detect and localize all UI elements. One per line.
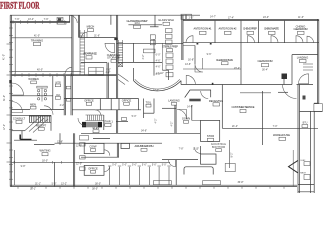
mech east wall	[116, 15, 118, 98]
dark column box	[282, 74, 288, 80]
svg-text:17'-2": 17'-2"	[3, 124, 6, 130]
left wall window ticks	[9, 28, 13, 179]
svg-text:BTU: BTU	[303, 122, 308, 125]
big left arrow	[289, 160, 299, 173]
dark tick on left wall	[9, 80, 11, 83]
svg-text:13'-4": 13'-4"	[28, 18, 34, 21]
left exterior wall	[9, 15, 11, 186]
svg-text:RECEPT: RECEPT	[36, 123, 47, 127]
office room lower	[84, 165, 104, 175]
svg-text:14'-7": 14'-7"	[210, 15, 216, 18]
door arc left of stair	[78, 118, 86, 126]
conf room upper	[84, 143, 104, 153]
svg-text:38'-0": 38'-0"	[95, 182, 101, 185]
svg-text:31'-0": 31'-0"	[3, 95, 6, 101]
men door arc	[44, 106, 53, 115]
svg-text:7'-8": 7'-8"	[179, 148, 184, 151]
svg-text:40'-0": 40'-0"	[37, 69, 43, 72]
svg-text:23'-4": 23'-4"	[234, 67, 240, 70]
exterior top outer line	[10, 14, 200, 16]
stair east wall	[103, 115, 105, 130]
svg-text:11'-6": 11'-6"	[298, 16, 304, 19]
door to warehouse	[283, 85, 297, 99]
svg-text:CONSULT: CONSULT	[13, 116, 26, 120]
wall ante1/ante2	[214, 21, 216, 43]
svg-text:ANTE ROOM #2: ANTE ROOM #2	[219, 27, 238, 31]
receiving desk	[185, 90, 211, 98]
corridor south line	[81, 132, 200, 134]
svg-text:4'-2": 4'-2"	[171, 121, 174, 126]
warehouse north wall stub	[278, 91, 288, 93]
svg-text:18'-0": 18'-0"	[42, 159, 48, 162]
small L wall center	[162, 69, 168, 71]
training SE door arc	[65, 67, 72, 74]
training south partition (hatched)	[12, 71, 82, 73]
right side step tab	[314, 102, 319, 104]
svg-text:CONF: CONF	[89, 145, 97, 149]
svg-text:ELEV: ELEV	[93, 126, 100, 130]
svg-text:CLEAN ROOM: CLEAN ROOM	[294, 27, 308, 31]
service boxes right of restrooms	[55, 84, 60, 87]
svg-text:CHEMO WASTE: CHEMO WASTE	[264, 27, 279, 31]
svg-text:BOOTH RM: BOOTH RM	[212, 146, 225, 149]
consult row wall	[12, 114, 52, 116]
svg-text:CLEAN ROOM #1: CLEAN ROOM #1	[216, 58, 234, 62]
svg-text:WOMEN: WOMEN	[28, 77, 38, 81]
svg-text:4'-2": 4'-2"	[60, 104, 65, 107]
right exterior wall upper	[317, 19, 319, 103]
svg-text:14'-6": 14'-6"	[185, 63, 191, 66]
svg-text:TRAINING: TRAINING	[31, 38, 43, 42]
svg-text:ELEC: ELEC	[301, 160, 306, 162]
svg-text:9'-6": 9'-6"	[207, 53, 212, 56]
svg-text:4'-6": 4'-6"	[156, 66, 161, 69]
svg-text:14'-6": 14'-6"	[187, 105, 193, 108]
svg-text:LANDING: LANDING	[297, 55, 309, 59]
svg-text:9'-8": 9'-8"	[21, 165, 26, 168]
svg-text:MEN: MEN	[30, 102, 36, 106]
sterile prep east wall	[194, 46, 196, 65]
svg-text:STAIR 1: STAIR 1	[103, 119, 113, 123]
audiology suite	[162, 159, 198, 161]
svg-text:4'-6": 4'-6"	[156, 60, 161, 63]
svg-text:36'-8": 36'-8"	[237, 181, 243, 184]
svg-text:STORAGE: STORAGE	[107, 56, 120, 60]
LANDING room	[292, 54, 318, 56]
svg-text:12'-2": 12'-2"	[153, 89, 159, 92]
top window wall of training room	[10, 20, 70, 22]
equip dark box	[303, 96, 306, 100]
svg-text:1034: 1034	[134, 22, 140, 25]
right block south wall	[183, 42, 319, 44]
small rects at bottom wall	[153, 181, 171, 185]
glasswash east wall	[153, 39, 155, 76]
MECH room	[77, 15, 79, 37]
gown ladder strip	[118, 40, 122, 62]
svg-text:5'-0": 5'-0"	[112, 163, 117, 166]
door arc into receiving	[177, 110, 187, 120]
counter	[184, 167, 213, 175]
svg-text:12'-0": 12'-0"	[76, 145, 82, 148]
svg-text:38'-0": 38'-0"	[92, 188, 98, 191]
svg-text:5'-0": 5'-0"	[162, 163, 167, 166]
svg-text:OFFICE: OFFICE	[84, 98, 94, 102]
fixtures	[37, 86, 47, 101]
svg-text:GLASS WSH: GLASS WSH	[158, 18, 174, 22]
svg-text:ACOUSTICAL BOOTH: ACOUSTICAL BOOTH	[135, 144, 154, 148]
svg-text:CLEAN ROOM: CLEAN ROOM	[258, 59, 273, 63]
wall ante2/prep	[240, 21, 242, 43]
svg-text:4'-2": 4'-2"	[155, 118, 158, 123]
CUSTOMER SERVICE room	[221, 85, 223, 129]
dim line across clean room 1	[183, 68, 241, 70]
shaft boxes at top step	[181, 14, 186, 19]
door up from corridor	[185, 75, 187, 84]
svg-text:5'-0": 5'-0"	[142, 163, 147, 166]
wall prep/waste	[258, 21, 260, 43]
svg-text:41'-0": 41'-0"	[34, 35, 40, 38]
small stair treads	[30, 116, 50, 122]
svg-text:7'-9": 7'-9"	[44, 18, 49, 21]
GLASS WSH room	[154, 15, 156, 27]
sound room west wall	[104, 150, 110, 156]
restroom door arcs	[12, 83, 24, 95]
desk rects	[80, 136, 89, 141]
svg-text:17'-10": 17'-10"	[156, 72, 164, 75]
svg-text:1'-10": 1'-10"	[193, 148, 199, 151]
ramp diagonals	[25, 117, 48, 133]
svg-text:31'-1": 31'-1"	[35, 183, 41, 186]
legend table	[89, 68, 104, 76]
office partition stubs	[110, 167, 169, 185]
STOR room	[201, 120, 220, 141]
restrooms below training	[52, 76, 54, 110]
bottom exterior wall	[10, 184, 297, 186]
corridor west walls	[63, 76, 65, 116]
bottom-left rooms row	[55, 142, 163, 144]
curved corridor wall	[134, 81, 182, 91]
upper flight ladder	[86, 115, 104, 121]
svg-text:8'-2": 8'-2"	[230, 152, 233, 157]
pallet box	[225, 163, 235, 171]
entry nook	[21, 131, 23, 140]
svg-text:24'-0": 24'-0"	[263, 16, 269, 19]
svg-text:13'-2": 13'-2"	[61, 183, 67, 186]
svg-text:5'-0": 5'-0"	[132, 163, 137, 166]
chase boxes	[66, 86, 70, 89]
right stair shaft lower	[292, 150, 294, 187]
corridor south wall of clean rooms	[181, 84, 292, 86]
svg-text:OFFICE: OFFICE	[122, 98, 132, 102]
svg-text:12'-0": 12'-0"	[76, 162, 82, 165]
TOIL room	[143, 99, 145, 119]
svg-text:16'-8": 16'-8"	[188, 59, 194, 62]
svg-text:OFFICE: OFFICE	[88, 166, 98, 170]
svg-text:FIRST FLOOR: FIRST FLOOR	[0, 0, 40, 10]
left wall dim ticks	[7, 44, 12, 162]
svg-text:5'-0": 5'-0"	[52, 183, 57, 186]
svg-text:5'-0": 5'-0"	[132, 115, 137, 118]
svg-text:JAN: JAN	[56, 94, 61, 97]
svg-text:WAITING: WAITING	[40, 149, 51, 153]
wall waste/cleanroom	[284, 21, 286, 43]
LRG APPLIANCE room	[81, 62, 107, 64]
svg-text:36'-4": 36'-4"	[262, 69, 268, 72]
svg-text:12'-8": 12'-8"	[57, 141, 63, 144]
svg-text:WAREHOUSE: WAREHOUSE	[273, 133, 290, 137]
svg-text:ANTE ROOM #1: ANTE ROOM #1	[194, 27, 213, 31]
left block south wall	[117, 42, 184, 44]
chemical storage west wall	[133, 43, 135, 62]
small offices row	[64, 98, 138, 100]
small boxes right of stair	[122, 118, 127, 121]
door at training NE corner	[69, 15, 71, 22]
svg-text:31'-1": 31'-1"	[30, 188, 36, 191]
svg-text:GOWN: GOWN	[182, 117, 190, 121]
svg-text:CUSTOMER SERVICE: CUSTOMER SERVICE	[232, 105, 255, 109]
wall cleanroom1 east	[240, 43, 242, 85]
svg-text:WTR: WTR	[55, 81, 61, 84]
top-right block exterior wall	[183, 18, 319, 20]
svg-text:STOR: STOR	[207, 134, 214, 138]
door arc at landing	[299, 74, 309, 84]
corridor verticals center	[106, 63, 108, 99]
svg-text:6'-0": 6'-0"	[156, 54, 161, 57]
training right wall	[71, 15, 73, 75]
svg-text:34'-6": 34'-6"	[141, 130, 147, 133]
svg-text:CHEMO PREP: CHEMO PREP	[243, 27, 257, 31]
svg-text:4'-2": 4'-2"	[106, 71, 111, 74]
svg-text:5'-0": 5'-0"	[152, 163, 157, 166]
door arcs of top row rooms	[186, 36, 193, 43]
right block west wall	[181, 15, 183, 60]
TRAINING room dim line	[12, 37, 72, 39]
svg-text:5'-0": 5'-0"	[122, 163, 127, 166]
dark treads	[82, 122, 87, 127]
svg-text:MECH: MECH	[87, 24, 95, 28]
svg-text:STERILE PREP: STERILE PREP	[162, 44, 178, 48]
svg-text:17'-4": 17'-4"	[228, 17, 234, 20]
svg-text:LRG APPLIANCE: LRG APPLIANCE	[83, 52, 97, 56]
svg-text:4'-2": 4'-2"	[142, 54, 145, 59]
svg-text:RECEIVING: RECEIVING	[209, 99, 223, 103]
svg-text:7'-0": 7'-0"	[273, 125, 278, 128]
svg-text:MECH: MECH	[300, 173, 306, 175]
partition ladder strip	[80, 30, 85, 75]
east shaft walls	[297, 85, 299, 194]
svg-text:TOIL: TOIL	[146, 100, 152, 104]
svg-text:21'-4": 21'-4"	[232, 125, 238, 128]
glasswash counter line	[128, 24, 162, 26]
svg-text:41'-0": 41'-0"	[3, 54, 6, 60]
svg-text:31'-6": 31'-6"	[94, 34, 100, 37]
casework column	[166, 53, 173, 77]
svg-text:7'-9": 7'-9"	[15, 18, 20, 21]
svg-text:LANDING: LANDING	[168, 99, 180, 103]
corridor walls at receiving	[162, 107, 176, 109]
warehouse dim line	[222, 127, 262, 129]
